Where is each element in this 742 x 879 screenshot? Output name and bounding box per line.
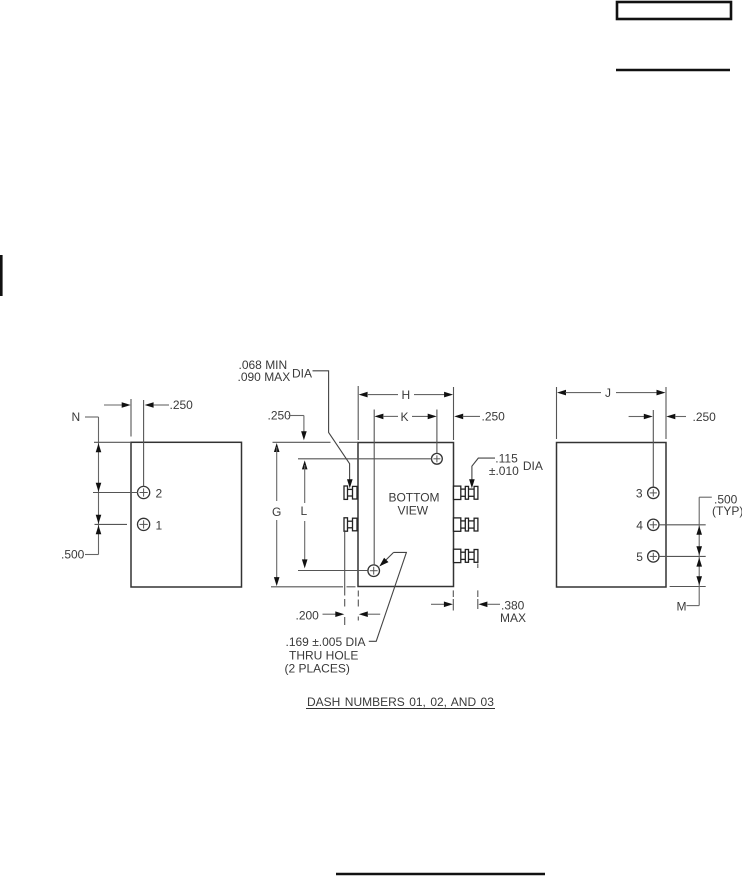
svg-text:.090 MAX: .090 MAX [238,370,291,384]
hole bottom-left [368,565,380,577]
arrow up below hole4 [696,526,702,535]
leader .115 [469,458,495,488]
svg-text:.250: .250 [482,410,506,424]
svg-text:DIA: DIA [523,459,543,473]
svg-text:N: N [72,410,81,424]
svg-text:.200: .200 [296,608,320,622]
svg-text:(TYP): (TYP) [712,504,742,518]
hole5 line right [659,555,706,557]
text .169 thru-hole [285,635,366,676]
J extension right [665,387,667,439]
left pin 1 [344,486,357,499]
hole 4 [648,519,659,530]
hole2-level line [298,458,432,460]
vertical dimension line left [98,417,100,555]
arrow down at hole1 line [96,515,102,524]
vertical dimension line right [698,497,700,605]
hole 3 [648,487,659,498]
.500 leader [85,554,99,556]
arrow up at box top [96,443,102,452]
extension line box left below [357,591,359,621]
extension line box right below [452,590,454,610]
G extension bottom [271,586,343,588]
text .115 ±.010 DIA [489,452,543,479]
hole 5 [648,551,659,562]
header box (empty title block) [617,2,731,19]
hole 2 [138,486,150,498]
right pin 1 [454,486,478,499]
svg-text:.500: .500 [61,548,85,562]
svg-text:(2 PLACES): (2 PLACES) [285,662,350,676]
centerline hole 3 up [652,410,654,487]
dim .250 right arrow [145,402,169,408]
svg-text:1: 1 [156,518,163,532]
dim L [301,460,308,568]
leader .068 DIA [313,371,353,489]
svg-text:.169 ±.005 DIA: .169 ±.005 DIA [286,635,366,649]
lower-hole-level line [298,570,368,572]
box right figure [557,443,667,588]
centerline holes up [143,400,145,487]
svg-text:.250: .250 [693,410,717,424]
extension line left pin tip below [344,532,346,626]
svg-text:.250: .250 [268,409,292,423]
header rule [616,69,730,72]
change bar [0,255,3,296]
hole top-right [432,453,443,464]
title DASH NUMBERS [306,695,495,709]
tick box top extension [94,441,131,443]
dim J [557,386,666,400]
svg-text:5: 5 [636,550,643,564]
H extension right [453,387,455,440]
dim .200 [296,608,381,622]
hole 1 [138,518,150,530]
box bottom extension right [670,586,706,588]
J extension left [556,387,558,439]
tick hole2 line [93,492,138,494]
svg-text:H: H [402,388,411,402]
footer rule [336,873,545,876]
right pin 2 [454,518,478,531]
svg-text:J: J [605,386,611,400]
svg-text:4: 4 [636,518,643,532]
M leader [687,605,700,607]
dim K [374,410,436,424]
svg-text:M: M [677,600,687,614]
dim .250 top right of center [454,410,505,424]
svg-text:3: 3 [636,486,643,500]
arrow up below hole5 [696,558,702,567]
leader .169 thru-hole [369,552,407,641]
svg-text:VIEW: VIEW [397,503,428,517]
svg-text:G: G [272,505,281,519]
dim .250 left of center [268,409,307,441]
left pin 2 [344,518,357,531]
hole4 line right [659,524,706,526]
G extension top [273,441,359,443]
dim .250 left arrow [104,402,131,408]
tick hole1 line [95,523,128,525]
box center figure [358,443,454,587]
H extension left [357,386,359,440]
arrow down above hole5 [696,546,702,555]
svg-text:MAX: MAX [500,611,526,625]
dim .250 right figure [629,410,717,424]
svg-text:THRU HOLE: THRU HOLE [289,649,358,663]
dim G [272,443,281,586]
K extension left (to lower hole) [373,410,375,566]
extension line box-left-edge up [130,399,132,437]
right pin 3 [454,549,478,562]
dim H [359,388,454,402]
box left figure [131,442,242,587]
svg-text:.250: .250 [170,398,194,412]
arrow up at hole1 line [96,525,102,534]
text .500 (TYP) [712,493,742,518]
.500 leader [699,496,712,498]
text .068 MIN .090 MAX DIA [238,358,313,384]
dim .380 MAX [431,599,526,626]
extension line pin tip below right [477,564,479,610]
arrow down at hole2 line [96,483,102,492]
svg-text:L: L [301,504,308,518]
N leader [85,416,99,418]
svg-text:K: K [401,410,409,424]
svg-text:2: 2 [156,486,163,500]
svg-text:DASH NUMBERS 01, 02, AND 03: DASH NUMBERS 01, 02, AND 03 [307,695,494,709]
arrow down at box bottom [696,576,702,585]
K extension right (to upper hole) [436,410,438,454]
svg-text:DIA: DIA [292,366,312,380]
svg-text:±.010: ±.010 [489,464,519,478]
